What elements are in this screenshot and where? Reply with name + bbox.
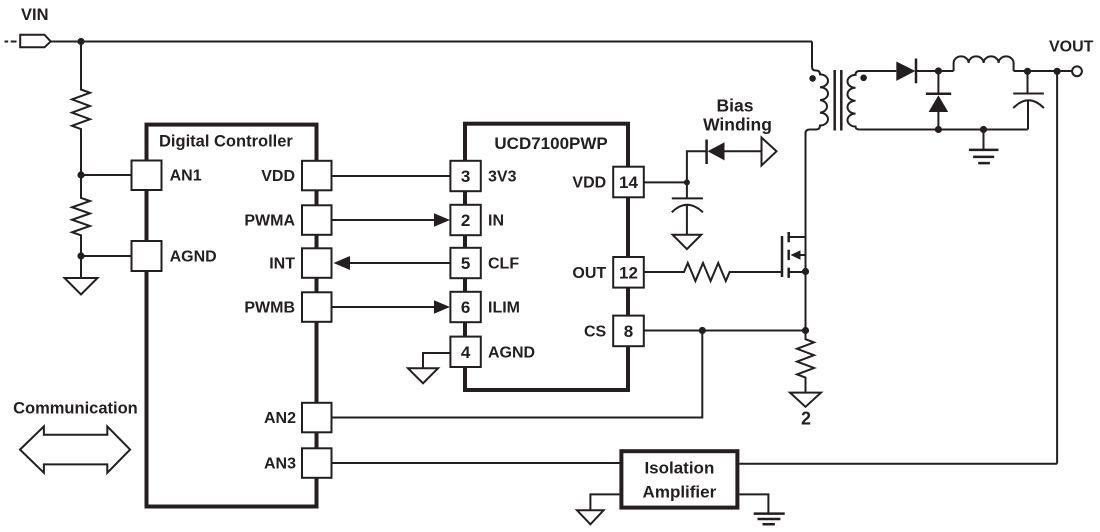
svg-text:IN: IN xyxy=(488,213,504,230)
svg-text:PWMA: PWMA xyxy=(244,213,295,230)
svg-text:AN1: AN1 xyxy=(170,168,202,185)
svg-text:ILIM: ILIM xyxy=(488,300,520,317)
svg-text:AN2: AN2 xyxy=(264,410,296,427)
svg-text:14: 14 xyxy=(619,173,638,192)
svg-text:AGND: AGND xyxy=(488,345,535,362)
svg-text:PWMB: PWMB xyxy=(244,300,295,317)
svg-text:2: 2 xyxy=(461,211,470,230)
svg-text:AGND: AGND xyxy=(170,249,217,266)
svg-text:12: 12 xyxy=(619,263,638,282)
svg-text:8: 8 xyxy=(624,322,633,341)
svg-text:INT: INT xyxy=(269,256,295,273)
svg-text:Isolation: Isolation xyxy=(644,459,714,478)
svg-text:VIN: VIN xyxy=(21,6,49,24)
svg-text:Communication: Communication xyxy=(13,400,138,418)
svg-text:VDD: VDD xyxy=(261,168,295,185)
svg-text:5: 5 xyxy=(461,254,470,273)
svg-text:Bias: Bias xyxy=(717,96,754,116)
svg-text:3V3: 3V3 xyxy=(488,169,517,186)
svg-text:AN3: AN3 xyxy=(264,456,296,473)
svg-text:CLF: CLF xyxy=(488,256,519,273)
svg-text:VDD: VDD xyxy=(572,175,606,192)
svg-text:OUT: OUT xyxy=(572,265,606,282)
svg-text:6: 6 xyxy=(461,298,470,317)
svg-text:Digital Controller: Digital Controller xyxy=(159,133,293,151)
svg-text:UCD7100PWP: UCD7100PWP xyxy=(494,134,607,153)
svg-text:CS: CS xyxy=(584,324,607,341)
svg-text:4: 4 xyxy=(461,343,471,362)
svg-text:Amplifier: Amplifier xyxy=(643,483,717,502)
svg-text:3: 3 xyxy=(461,167,470,186)
svg-text:VOUT: VOUT xyxy=(1049,39,1094,56)
svg-text:Winding: Winding xyxy=(703,115,772,135)
svg-text:2: 2 xyxy=(801,409,811,429)
